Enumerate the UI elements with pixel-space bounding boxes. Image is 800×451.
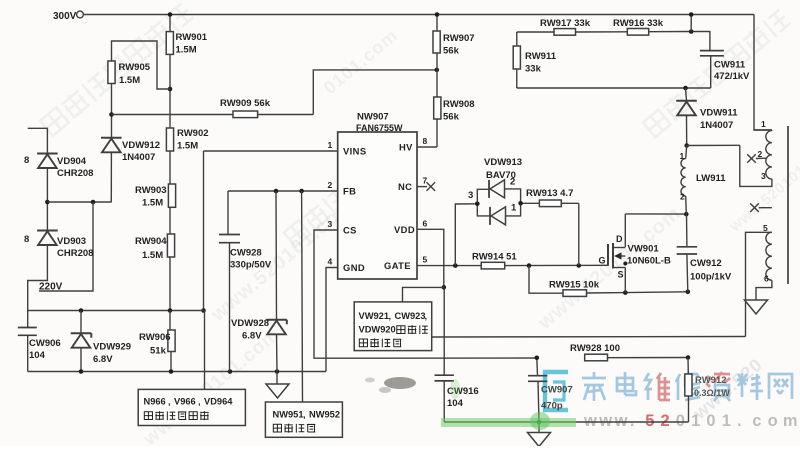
svg-text:RW905: RW905 — [119, 62, 151, 73]
svg-text:VDW920: VDW920 — [359, 325, 396, 335]
transformer core — [787, 126, 789, 284]
wire xfmr pin5 link — [746, 232, 772, 336]
watermark logo and site name — [545, 372, 798, 430]
wire pin3 link — [687, 145, 772, 186]
wire drain link — [625, 214, 686, 247]
svg-text:CW912: CW912 — [690, 258, 722, 269]
svg-text:RW916 33k: RW916 33k — [613, 18, 664, 29]
node clamp-VDW911 — [683, 86, 688, 91]
svg-text:1: 1 — [761, 119, 766, 129]
svg-text:RW904: RW904 — [135, 236, 167, 247]
transformer primary winding — [758, 119, 772, 181]
svg-text:1: 1 — [722, 412, 731, 430]
svg-text:6.8V: 6.8V — [93, 354, 113, 365]
svg-text:RW911: RW911 — [525, 51, 557, 62]
paper smudge — [365, 377, 416, 393]
node FB-VDW928 — [274, 189, 279, 194]
svg-text:330p/50V: 330p/50V — [230, 260, 272, 271]
svg-text:2: 2 — [328, 180, 333, 190]
dual diode VDW913 BAV70 — [468, 157, 523, 225]
svg-text:VDW913: VDW913 — [484, 157, 522, 168]
svg-text:RW915 10k: RW915 10k — [549, 280, 600, 291]
svg-text:‚: ‚ — [198, 397, 201, 407]
svg-text:472/1kV: 472/1kV — [714, 71, 750, 82]
svg-text:1.5M: 1.5M — [177, 141, 198, 152]
resistor RW914 — [472, 252, 517, 269]
svg-text:1: 1 — [691, 412, 700, 430]
svg-text:.: . — [737, 412, 742, 430]
wire CS trace — [314, 230, 688, 358]
svg-text:1.5M: 1.5M — [119, 75, 140, 86]
node LW911 bottom — [684, 212, 689, 217]
capacitor CW907 — [528, 376, 573, 412]
svg-text:NW952: NW952 — [309, 410, 340, 420]
wire CW916 column — [443, 287, 445, 422]
resistor RW915 — [549, 280, 600, 297]
svg-text:56k: 56k — [443, 112, 460, 123]
svg-text:VDW911: VDW911 — [700, 108, 738, 119]
diode VDW912 — [101, 138, 160, 163]
diode VDW911 — [676, 101, 738, 131]
svg-text:.: . — [630, 412, 635, 430]
node CS-CW907 — [535, 356, 540, 361]
svg-text:1.5M: 1.5M — [142, 198, 163, 209]
resistor RW903 — [135, 184, 176, 209]
zener VDW929 — [71, 333, 131, 365]
svg-text:VW901: VW901 — [628, 244, 660, 255]
annotation box N966 overvoltage detect — [138, 389, 245, 425]
wire VD903 bottom — [28, 245, 48, 327]
diode VD903 — [24, 231, 93, 260]
node gnd-RW906 — [169, 369, 174, 374]
wire VDW928 column — [276, 191, 277, 372]
svg-text:RW908: RW908 — [443, 99, 475, 110]
node gnd-VDW929 — [79, 369, 84, 374]
svg-text:‚: ‚ — [389, 311, 392, 321]
node CS-RW928 right — [686, 355, 691, 360]
svg-text:‚: ‚ — [425, 311, 428, 321]
svg-text:w: w — [583, 412, 597, 430]
svg-text:104: 104 — [29, 350, 46, 361]
wire GND trace — [326, 268, 338, 372]
wire xfmr pin1 link — [754, 129, 772, 132]
resistor RW908 — [434, 97, 475, 123]
capacitor CW911 — [700, 51, 750, 82]
wire rect rail y202 — [47, 201, 111, 203]
svg-text:3: 3 — [761, 171, 766, 181]
svg-text:w: w — [614, 412, 628, 430]
svg-text:33k: 33k — [525, 64, 542, 75]
svg-text:6: 6 — [423, 218, 428, 228]
svg-text:8: 8 — [423, 136, 428, 146]
svg-text:NW951: NW951 — [273, 410, 304, 420]
wire RW915 trace — [529, 266, 625, 294]
wire rail y310 — [28, 310, 204, 312]
svg-text:RW913 4.7: RW913 4.7 — [526, 188, 573, 199]
node VDD junction — [442, 285, 447, 290]
node snubber junction — [684, 143, 689, 148]
wire 220V branch — [39, 202, 93, 291]
svg-text:CW906: CW906 — [29, 338, 61, 349]
wire RW905 top link — [112, 41, 171, 89]
svg-text:NW907: NW907 — [357, 112, 389, 123]
transformer tap2 nc — [747, 154, 766, 163]
node RW906 top — [168, 308, 173, 313]
ground symbol bottom — [528, 433, 551, 447]
resistor RW912 — [685, 374, 730, 398]
wire CW912 column — [687, 214, 688, 292]
svg-text:5: 5 — [645, 412, 654, 430]
resistor RW917 — [540, 18, 591, 35]
resistor RW928 — [570, 343, 620, 361]
node divider junction — [168, 87, 173, 92]
svg-text:RW901: RW901 — [176, 32, 208, 43]
svg-text:1: 1 — [511, 203, 517, 214]
svg-text:CW928: CW928 — [230, 248, 262, 259]
svg-text:CHR208: CHR208 — [57, 248, 93, 259]
svg-text:RW903: RW903 — [135, 185, 167, 196]
svg-text:RW906: RW906 — [139, 332, 171, 343]
resistor RW905 — [108, 61, 151, 86]
svg-text:RW909 56k: RW909 56k — [220, 98, 271, 109]
svg-text:104: 104 — [447, 398, 464, 409]
node source — [623, 290, 628, 295]
wire VDD trace — [417, 229, 444, 287]
svg-text:6: 6 — [764, 274, 769, 284]
inductor LW911 — [680, 151, 727, 202]
wire VW921 callout up — [403, 287, 444, 302]
svg-text:S: S — [618, 270, 624, 280]
node HV rail top — [435, 12, 440, 17]
svg-text:‚: ‚ — [303, 410, 306, 420]
ground symbol secondary — [745, 300, 768, 314]
svg-text:1N4007: 1N4007 — [122, 152, 155, 163]
resistor RW911 — [513, 46, 556, 75]
wire GATE rail — [417, 264, 608, 266]
capacitor CW928 — [219, 235, 272, 271]
resistor RW902 — [166, 128, 208, 152]
svg-text:VDW929: VDW929 — [93, 342, 131, 353]
svg-text:m: m — [783, 412, 798, 430]
wire RW902-903-904 column — [169, 151, 171, 311]
svg-text:CHR208: CHR208 — [57, 168, 93, 179]
svg-text:VDW928: VDW928 — [231, 318, 269, 329]
annotation box VW921 secondary supply — [354, 302, 432, 351]
node VDW929 top — [79, 308, 84, 313]
wire FB trace — [228, 190, 338, 192]
svg-text:RW907: RW907 — [443, 33, 475, 44]
svg-text:GATE: GATE — [384, 260, 411, 271]
node RW907-RW908 junction — [435, 68, 440, 73]
node RW905 bottom — [109, 112, 114, 117]
svg-text:CS: CS — [343, 225, 357, 236]
wire CW928 column — [228, 191, 230, 372]
svg-text:VW921: VW921 — [359, 311, 390, 321]
svg-text:100p/1kV: 100p/1kV — [690, 272, 732, 283]
resistor RW909 — [220, 98, 271, 118]
wire BAV70 pin3 link — [455, 204, 477, 266]
ground symbol left — [266, 384, 289, 398]
wire N966 callout — [204, 311, 206, 390]
svg-text:c: c — [752, 412, 761, 430]
svg-text:LW911: LW911 — [696, 173, 726, 184]
svg-text:VD964: VD964 — [204, 397, 233, 407]
svg-text:56k: 56k — [443, 46, 460, 57]
node clamp-toprail link — [689, 12, 694, 34]
svg-text:RW902: RW902 — [177, 128, 209, 139]
svg-text:2: 2 — [510, 177, 515, 188]
wire source rail — [625, 291, 688, 294]
svg-text:2: 2 — [758, 149, 763, 159]
svg-text:VINS: VINS — [343, 146, 366, 157]
svg-text:VDW912: VDW912 — [122, 140, 160, 151]
svg-text:CW923: CW923 — [395, 311, 426, 321]
svg-text:N966: N966 — [144, 397, 166, 407]
capacitor CW916 — [435, 375, 479, 409]
wire VW921 callout right — [432, 336, 746, 339]
node rect junction right — [91, 200, 96, 205]
svg-text:1N4007: 1N4007 — [700, 120, 733, 131]
label 220V — [39, 282, 63, 293]
svg-text:5: 5 — [423, 255, 428, 265]
wire xfmr pin6 link — [756, 280, 772, 300]
svg-text:RW914 51: RW914 51 — [472, 252, 517, 263]
wire RW905-VDW912 column — [110, 84, 112, 203]
resistor RW904 — [135, 234, 175, 261]
wire HV column — [417, 15, 437, 148]
svg-text:51k: 51k — [150, 346, 167, 357]
svg-text:FAN6755W: FAN6755W — [356, 123, 403, 133]
resistor RW906 — [139, 330, 175, 357]
svg-text:D: D — [616, 234, 623, 244]
wire CW907 column — [537, 358, 539, 422]
diode VD904 — [24, 154, 93, 180]
svg-text:470p: 470p — [541, 401, 563, 412]
svg-text:CW907: CW907 — [541, 385, 573, 396]
wire 300V top rail — [84, 15, 772, 131]
highlight marks — [441, 379, 576, 430]
svg-text:‚: ‚ — [168, 397, 171, 407]
wire ground rail bottom y422 — [444, 421, 688, 423]
svg-text:300V: 300V — [53, 11, 77, 22]
svg-text:CW911: CW911 — [714, 60, 746, 71]
wire VD904-VD903 link — [46, 168, 48, 231]
resistor RW901 — [166, 32, 208, 56]
svg-text:7: 7 — [423, 176, 428, 186]
resistor RW916 — [613, 18, 664, 35]
wire LW911 column — [686, 146, 687, 215]
svg-text:RW928 100: RW928 100 — [570, 343, 620, 354]
node rect junction left — [45, 200, 50, 205]
nc mark pin7 — [427, 182, 436, 191]
transformer pin4 nc — [750, 203, 772, 212]
wire RW913 trace — [521, 203, 579, 265]
node VINS rail — [201, 308, 206, 313]
svg-text:G: G — [599, 256, 606, 266]
svg-text:RW912: RW912 — [695, 375, 727, 386]
node gnd-CW928 — [228, 369, 233, 374]
svg-text:V966: V966 — [174, 397, 196, 407]
wire gnd stub left — [276, 372, 278, 385]
node gate-bav70 — [453, 263, 458, 268]
wire VDW911 column — [686, 88, 687, 146]
wire clamp top — [517, 32, 710, 51]
node gnd-CW907 — [537, 420, 542, 425]
svg-text:0: 0 — [676, 412, 685, 430]
svg-text:FB: FB — [343, 186, 356, 197]
wire RW906 column — [170, 311, 171, 372]
svg-text:w: w — [598, 412, 612, 430]
svg-text:5: 5 — [763, 223, 768, 233]
node RW901 top — [168, 12, 173, 17]
svg-text:6.8V: 6.8V — [242, 331, 262, 342]
svg-text:RW917 33k: RW917 33k — [540, 18, 591, 29]
svg-text:HV: HV — [399, 142, 413, 153]
svg-text:8: 8 — [24, 234, 29, 245]
wire VD904 stub — [28, 128, 48, 153]
op-amp/controller U1 NW907 FAN6755W — [328, 112, 428, 280]
svg-text:8: 8 — [24, 155, 29, 166]
wire CW906 column — [27, 336, 29, 372]
wire gnd stub bottom — [538, 422, 540, 433]
node gate-rw915 — [527, 263, 532, 268]
svg-text:VD903: VD903 — [57, 236, 86, 247]
capacitor CW906 — [18, 328, 61, 362]
svg-text:2: 2 — [680, 192, 685, 202]
wire NW951 callout — [301, 191, 304, 402]
svg-text:1: 1 — [680, 151, 685, 161]
wire RW911 column — [516, 32, 518, 88]
svg-text:0: 0 — [706, 412, 715, 430]
node gnd-VDW928 — [275, 369, 280, 374]
mosfet VW901 — [599, 234, 671, 293]
svg-text:220V: 220V — [39, 282, 63, 293]
wire sense rail y114 — [112, 70, 437, 115]
terminal 300V — [53, 11, 83, 22]
wire RW912 column — [687, 358, 690, 423]
svg-text:0.3Ω/1W: 0.3Ω/1W — [694, 388, 730, 398]
wire VDW929 column — [80, 311, 82, 372]
resistor RW907 — [433, 31, 475, 57]
svg-text:3: 3 — [328, 219, 333, 229]
svg-text:GND: GND — [343, 262, 365, 273]
zener VDW928 — [231, 318, 287, 342]
svg-text:o: o — [768, 412, 778, 430]
svg-text:1.5M: 1.5M — [142, 250, 163, 261]
svg-text:VD904: VD904 — [57, 156, 87, 167]
svg-text:4: 4 — [328, 257, 333, 267]
wire clamp bottom — [517, 56, 711, 88]
annotation box NW951 regulator — [265, 402, 342, 437]
node gate-rw913 — [577, 263, 582, 268]
node FB-NW951 — [299, 189, 304, 194]
svg-text:1: 1 — [328, 140, 333, 150]
svg-text:10N60L-B: 10N60L-B — [627, 256, 671, 267]
svg-text:2: 2 — [661, 412, 670, 430]
svg-text:3: 3 — [468, 190, 473, 201]
wire RW901 column — [169, 15, 171, 129]
node CW912 bottom — [686, 290, 691, 295]
resistor RW913 — [526, 188, 573, 207]
svg-text:1.5M: 1.5M — [176, 45, 197, 56]
svg-text:NC: NC — [398, 181, 412, 192]
wire VINS trace — [204, 151, 338, 311]
svg-text:VDD: VDD — [394, 224, 415, 235]
transformer secondary winding — [763, 223, 772, 284]
wire ground rail left y371 — [28, 371, 326, 373]
capacitor CW912 — [677, 247, 732, 283]
